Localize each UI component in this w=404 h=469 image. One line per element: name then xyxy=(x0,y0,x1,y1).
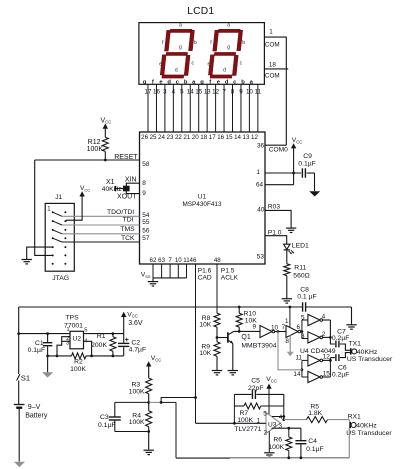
svg-text:10: 10 xyxy=(246,88,253,95)
svg-text:CAD: CAD xyxy=(198,275,212,282)
svg-text:d: d xyxy=(223,68,226,74)
wire op-amp input pin 1 xyxy=(196,422,267,424)
op-amp U3 TLV2771 xyxy=(266,413,281,434)
ground for op-amp pin 2 xyxy=(264,452,274,454)
svg-text:4: 4 xyxy=(322,313,326,320)
svg-text:24: 24 xyxy=(158,134,165,141)
resistor R10 10K xyxy=(238,306,241,309)
battery rail top xyxy=(19,306,302,308)
svg-text:5: 5 xyxy=(180,88,184,95)
svg-text:3: 3 xyxy=(301,333,305,340)
svg-text:15: 15 xyxy=(226,134,233,141)
svg-text:17: 17 xyxy=(209,134,216,141)
svg-text:1: 1 xyxy=(66,327,69,333)
svg-text:RESET: RESET xyxy=(114,154,138,161)
battery positive vertical with switch xyxy=(18,307,20,374)
wire XIN xyxy=(126,183,139,186)
resistor R7 100K feedback xyxy=(233,394,235,423)
svg-text:10K: 10K xyxy=(199,350,212,357)
svg-text:4.7µF: 4.7µF xyxy=(129,346,147,353)
svg-text:100K: 100K xyxy=(87,146,104,153)
svg-text:0.2µF: 0.2µF xyxy=(332,335,350,342)
capacitor C3 xyxy=(115,401,149,403)
svg-text:18: 18 xyxy=(269,62,277,69)
transducer TX1 40KHz xyxy=(350,348,352,354)
LED LED1 xyxy=(284,244,290,249)
svg-text:53: 53 xyxy=(257,254,265,261)
svg-text:e: e xyxy=(208,61,211,67)
inverter U4a pins 9-10 xyxy=(260,326,272,338)
svg-text:0.2µF: 0.2µF xyxy=(332,372,350,379)
svg-text:US Transducer: US Transducer xyxy=(347,356,393,363)
svg-text:C9: C9 xyxy=(303,153,312,160)
svg-text:100K: 100K xyxy=(70,366,86,373)
svg-text:TCK: TCK xyxy=(121,235,135,242)
svg-text:18: 18 xyxy=(200,134,207,141)
wire op-amp pin 4 feedback node xyxy=(272,416,284,418)
transducer RX1 40KHz xyxy=(348,420,350,422)
LCD to U1 wires xyxy=(147,84,149,132)
svg-text:1: 1 xyxy=(285,318,289,325)
svg-text:56: 56 xyxy=(142,227,150,234)
svg-text:f: f xyxy=(152,79,154,85)
svg-text:COM: COM xyxy=(265,41,280,48)
wire RX1 to bottom rail xyxy=(348,428,350,458)
svg-text:9: 9 xyxy=(239,88,243,95)
svg-text:0.1 µF: 0.1 µF xyxy=(297,293,316,300)
svg-text:R11: R11 xyxy=(294,265,306,272)
svg-text:J1: J1 xyxy=(55,194,62,201)
svg-text:10: 10 xyxy=(175,257,182,264)
resistor R11 560ohm xyxy=(284,264,290,276)
svg-text:U3: U3 xyxy=(268,422,277,429)
svg-text:57: 57 xyxy=(142,235,150,242)
wire COM0 xyxy=(265,144,286,146)
svg-text:3.6V: 3.6V xyxy=(128,320,143,327)
svg-text:U4 CD4049: U4 CD4049 xyxy=(300,348,336,355)
resistor R5 1.8K xyxy=(284,419,307,421)
svg-text:13: 13 xyxy=(204,88,211,95)
wire op-amp pin 2 ground xyxy=(268,431,270,452)
svg-text:46: 46 xyxy=(190,257,197,264)
svg-text:TLV2771: TLV2771 xyxy=(234,426,261,433)
svg-text:C8: C8 xyxy=(300,286,309,293)
svg-text:P1.0: P1.0 xyxy=(268,229,282,236)
resistor R12 xyxy=(102,137,108,151)
wire RESET xyxy=(35,159,140,161)
svg-text:58: 58 xyxy=(142,161,150,168)
svg-text:R10: R10 xyxy=(244,310,257,317)
svg-text:100K: 100K xyxy=(268,444,284,451)
connector J1 JTAG box xyxy=(45,203,74,271)
svg-text:g: g xyxy=(143,79,147,85)
svg-text:9: 9 xyxy=(252,323,256,330)
svg-text:100K: 100K xyxy=(129,419,145,426)
svg-text:16: 16 xyxy=(153,88,160,95)
bottom reference rail xyxy=(176,457,230,459)
capacitor C1 xyxy=(46,332,49,335)
svg-text:36: 36 xyxy=(257,143,265,150)
capacitor C6 xyxy=(330,357,335,359)
ground for Vss xyxy=(152,278,154,282)
svg-text:13: 13 xyxy=(243,134,250,141)
JTAG signal TMS xyxy=(53,230,62,234)
transistor Q1 MMBT3904 xyxy=(217,337,228,339)
svg-text:R2: R2 xyxy=(74,358,83,365)
ground for Q1 emitter xyxy=(228,370,238,372)
svg-text:4: 4 xyxy=(279,414,283,421)
battery negative to ground xyxy=(18,408,20,462)
svg-text:4: 4 xyxy=(172,88,176,95)
svg-text:3: 3 xyxy=(279,423,283,430)
7-segment digit 2 xyxy=(208,29,243,78)
svg-text:8: 8 xyxy=(231,88,235,95)
U1 MSP430F413 box xyxy=(140,132,266,264)
input bus first pair xyxy=(301,320,303,339)
JTAG ground xyxy=(27,247,53,259)
wire R03 pin 40 xyxy=(265,210,291,228)
svg-text:3: 3 xyxy=(163,88,167,95)
svg-text:22: 22 xyxy=(175,134,182,141)
svg-text:7: 7 xyxy=(222,88,226,95)
resistor R4 100K xyxy=(148,402,150,410)
svg-text:P1.6: P1.6 xyxy=(198,267,212,274)
svg-text:200K: 200K xyxy=(91,342,107,349)
svg-text:40: 40 xyxy=(257,207,265,214)
svg-text:COM0: COM0 xyxy=(269,147,288,154)
svg-text:ACLK: ACLK xyxy=(221,275,239,282)
svg-text:C5: C5 xyxy=(251,377,260,384)
svg-text:2: 2 xyxy=(264,430,268,437)
svg-text:23: 23 xyxy=(167,134,174,141)
svg-text:5: 5 xyxy=(84,328,87,334)
capacitor C5 22pF xyxy=(234,393,251,395)
LCD1 display box xyxy=(139,23,265,85)
svg-text:TMS: TMS xyxy=(120,226,135,233)
U2 pins 2-3 loop xyxy=(57,337,70,356)
svg-text:1: 1 xyxy=(256,169,260,176)
svg-text:e: e xyxy=(159,61,162,67)
Vss stubs and bar xyxy=(152,264,154,278)
gray feed wire to second pair xyxy=(278,332,302,370)
svg-text:a: a xyxy=(179,23,182,29)
svg-text:560Ω: 560Ω xyxy=(293,272,309,279)
wire pin 64 xyxy=(265,184,294,186)
svg-text:40KHz: 40KHz xyxy=(357,349,378,356)
svg-text:d: d xyxy=(225,79,229,85)
svg-text:5: 5 xyxy=(301,314,305,321)
svg-text:LCD1: LCD1 xyxy=(187,6,214,17)
svg-text:b: b xyxy=(194,40,197,46)
wire P1.0 pin 53 xyxy=(265,236,287,244)
resistor R3 100K xyxy=(146,378,152,394)
svg-text:12: 12 xyxy=(323,353,331,360)
wire pin 6 output xyxy=(301,331,302,333)
JTAG pins xyxy=(52,211,54,213)
JTAG signal TCK xyxy=(53,238,62,242)
svg-text:12: 12 xyxy=(212,88,219,95)
svg-text:g: g xyxy=(227,45,230,51)
svg-text:15: 15 xyxy=(195,88,202,95)
svg-text:8: 8 xyxy=(142,180,146,187)
svg-text:16: 16 xyxy=(217,134,224,141)
ground for R9 xyxy=(212,370,222,372)
svg-text:7: 7 xyxy=(168,257,172,264)
svg-text:TDI: TDI xyxy=(123,217,134,224)
input bus second pair xyxy=(301,360,303,377)
svg-text:10K: 10K xyxy=(199,322,212,329)
svg-text:63: 63 xyxy=(158,257,165,264)
capacitor C2 4.7uF polarized xyxy=(123,334,125,343)
input rail xyxy=(19,333,70,335)
regulator U2 TPS77001 xyxy=(70,331,84,349)
switch S1 xyxy=(17,374,20,380)
Vcc 3.6V arrow xyxy=(121,312,126,317)
svg-text:XOUT: XOUT xyxy=(117,194,137,201)
inverter U4f pins 14-15 xyxy=(308,371,320,382)
svg-text:40KHz: 40KHz xyxy=(102,186,122,193)
ground for C8 xyxy=(351,307,353,325)
wire XOUT xyxy=(126,191,139,194)
svg-text:d: d xyxy=(175,68,178,74)
wire P1.6 vertical xyxy=(195,264,197,398)
svg-text:5: 5 xyxy=(263,411,267,418)
inverter U4b pins 7-6 xyxy=(286,326,298,338)
svg-text:b: b xyxy=(242,40,245,46)
svg-text:0.1µF: 0.1µF xyxy=(98,422,116,429)
svg-text:R1: R1 xyxy=(97,333,106,340)
LCD COM box pin 1 xyxy=(264,37,286,145)
svg-text:1: 1 xyxy=(269,29,273,36)
svg-text:Q1: Q1 xyxy=(241,334,250,341)
svg-text:f: f xyxy=(209,79,211,85)
svg-text:11: 11 xyxy=(255,88,262,95)
wire op-amp output pin 3 xyxy=(272,427,301,429)
bottom rail with R2 xyxy=(48,355,72,357)
ground for R03 xyxy=(286,227,296,229)
svg-text:b: b xyxy=(184,79,188,85)
svg-text:6: 6 xyxy=(297,324,301,331)
capacitor C8 on battery rail xyxy=(302,302,304,311)
wires rx pair outputs xyxy=(329,358,331,377)
svg-text:0.1µF: 0.1µF xyxy=(306,446,324,453)
ground for R11 xyxy=(282,298,292,300)
capacitor C9 xyxy=(301,168,303,177)
svg-text:TPS: TPS xyxy=(65,315,79,322)
svg-text:R3: R3 xyxy=(131,381,140,388)
resistor R8 10K xyxy=(214,313,220,327)
svg-text:U1: U1 xyxy=(198,194,207,201)
resistor R2 100K xyxy=(72,353,87,359)
svg-text:COM: COM xyxy=(265,73,280,80)
svg-text:C6: C6 xyxy=(338,364,347,371)
wire RESET to JTAG xyxy=(35,160,53,255)
svg-text:54: 54 xyxy=(142,212,150,219)
inverter U4e pins 11-12 xyxy=(308,355,320,366)
svg-text:62: 62 xyxy=(150,257,157,264)
svg-text:0.1µF: 0.1µF xyxy=(298,161,316,168)
7-segment digit 1 xyxy=(160,29,195,78)
U2 pin 4 wire xyxy=(84,341,92,356)
ground for C1 xyxy=(42,372,53,377)
svg-text:C4: C4 xyxy=(308,438,317,445)
divider node wires xyxy=(147,401,150,404)
wire collector node to inverter xyxy=(238,330,241,333)
svg-text:R12: R12 xyxy=(88,139,101,146)
svg-text:64: 64 xyxy=(256,182,264,189)
capacitor C7 xyxy=(335,341,337,348)
svg-text:8: 8 xyxy=(285,338,289,345)
CD4049 Vcc pin 1 wire xyxy=(289,306,292,309)
wire inverter 10 to 7 xyxy=(275,331,286,333)
svg-text:40KHz: 40KHz xyxy=(356,423,377,430)
JTAG signal TDI xyxy=(53,221,62,225)
svg-text:26: 26 xyxy=(141,134,148,141)
svg-text:21: 21 xyxy=(183,134,190,141)
svg-text:MMBT3904: MMBT3904 xyxy=(241,343,276,350)
svg-text:Battery: Battery xyxy=(25,413,48,420)
svg-text:+: + xyxy=(125,335,130,344)
svg-text:TDO/TDI: TDO/TDI xyxy=(107,209,134,216)
capacitor C4 xyxy=(300,428,302,440)
ground for C9 xyxy=(314,173,316,191)
svg-text:US Transducer: US Transducer xyxy=(346,430,392,437)
svg-text:9: 9 xyxy=(142,190,146,197)
svg-text:17: 17 xyxy=(145,88,152,95)
inverter U4d pins 3-2 xyxy=(308,332,320,343)
battery B1 9V xyxy=(14,404,25,406)
svg-text:55: 55 xyxy=(142,219,150,226)
svg-text:LED1: LED1 xyxy=(292,242,309,249)
svg-text:P1.5: P1.5 xyxy=(221,267,235,274)
ground for R4 xyxy=(144,449,154,451)
svg-text:15: 15 xyxy=(323,370,331,377)
svg-text:C3: C3 xyxy=(100,414,109,421)
output rail xyxy=(84,333,124,335)
resistor R6 100K xyxy=(288,428,290,437)
svg-text:RX1: RX1 xyxy=(348,413,361,420)
svg-text:R03: R03 xyxy=(268,204,280,211)
ground for battery xyxy=(14,462,25,467)
wire P1.5 ACLK vertical xyxy=(216,264,218,313)
svg-text:11: 11 xyxy=(295,354,302,361)
JTAG signal TDO/TDI xyxy=(53,212,62,216)
resistor R9 10K xyxy=(216,336,219,339)
svg-text:25: 25 xyxy=(150,134,157,141)
svg-text:TX1: TX1 xyxy=(349,340,362,347)
svg-text:48: 48 xyxy=(214,257,221,264)
svg-text:1.8K: 1.8K xyxy=(308,410,322,417)
divider jog wire to P1.6 xyxy=(161,398,195,403)
svg-text:XIN: XIN xyxy=(125,176,137,183)
svg-text:R6: R6 xyxy=(273,436,282,443)
svg-text:14: 14 xyxy=(187,88,194,95)
svg-text:d: d xyxy=(167,79,171,85)
svg-text:U2: U2 xyxy=(73,336,82,343)
svg-text:20: 20 xyxy=(192,134,199,141)
svg-text:14: 14 xyxy=(234,134,241,141)
wires tx pair outputs xyxy=(323,319,331,321)
svg-text:g: g xyxy=(179,45,182,51)
crystal X1 40KHz xyxy=(123,186,130,192)
svg-text:C2: C2 xyxy=(131,339,140,346)
svg-text:g: g xyxy=(200,79,204,85)
svg-text:a: a xyxy=(227,23,230,29)
svg-text:MSP430F413: MSP430F413 xyxy=(182,201,222,208)
LCD COM divider pin 18 xyxy=(264,68,288,70)
svg-text:b: b xyxy=(241,79,245,85)
svg-text:22pF: 22pF xyxy=(248,385,264,392)
svg-text:JTAG: JTAG xyxy=(52,275,69,282)
svg-text:14: 14 xyxy=(293,371,301,378)
inverter U4c pins 5-4 xyxy=(308,314,320,325)
svg-text:100K: 100K xyxy=(129,389,145,396)
resistor R1 200K xyxy=(112,332,115,335)
wire pin 1 xyxy=(265,172,301,174)
svg-text:S1: S1 xyxy=(21,373,30,382)
svg-text:9–V: 9–V xyxy=(28,404,41,411)
svg-text:0.1µF: 0.1µF xyxy=(28,347,46,354)
svg-text:12: 12 xyxy=(251,134,258,141)
